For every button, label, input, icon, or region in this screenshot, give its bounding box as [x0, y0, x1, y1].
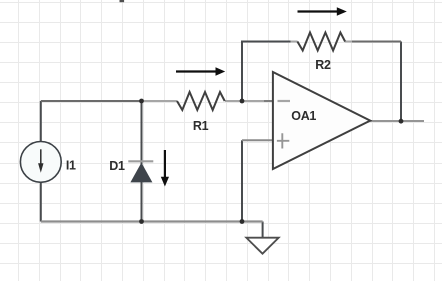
svg-text:D1: D1: [109, 159, 125, 173]
svg-text:R1: R1: [193, 119, 209, 133]
svg-text:I1: I1: [66, 159, 76, 173]
svg-text:OA1: OA1: [291, 109, 316, 123]
svg-text:R2: R2: [315, 58, 331, 72]
